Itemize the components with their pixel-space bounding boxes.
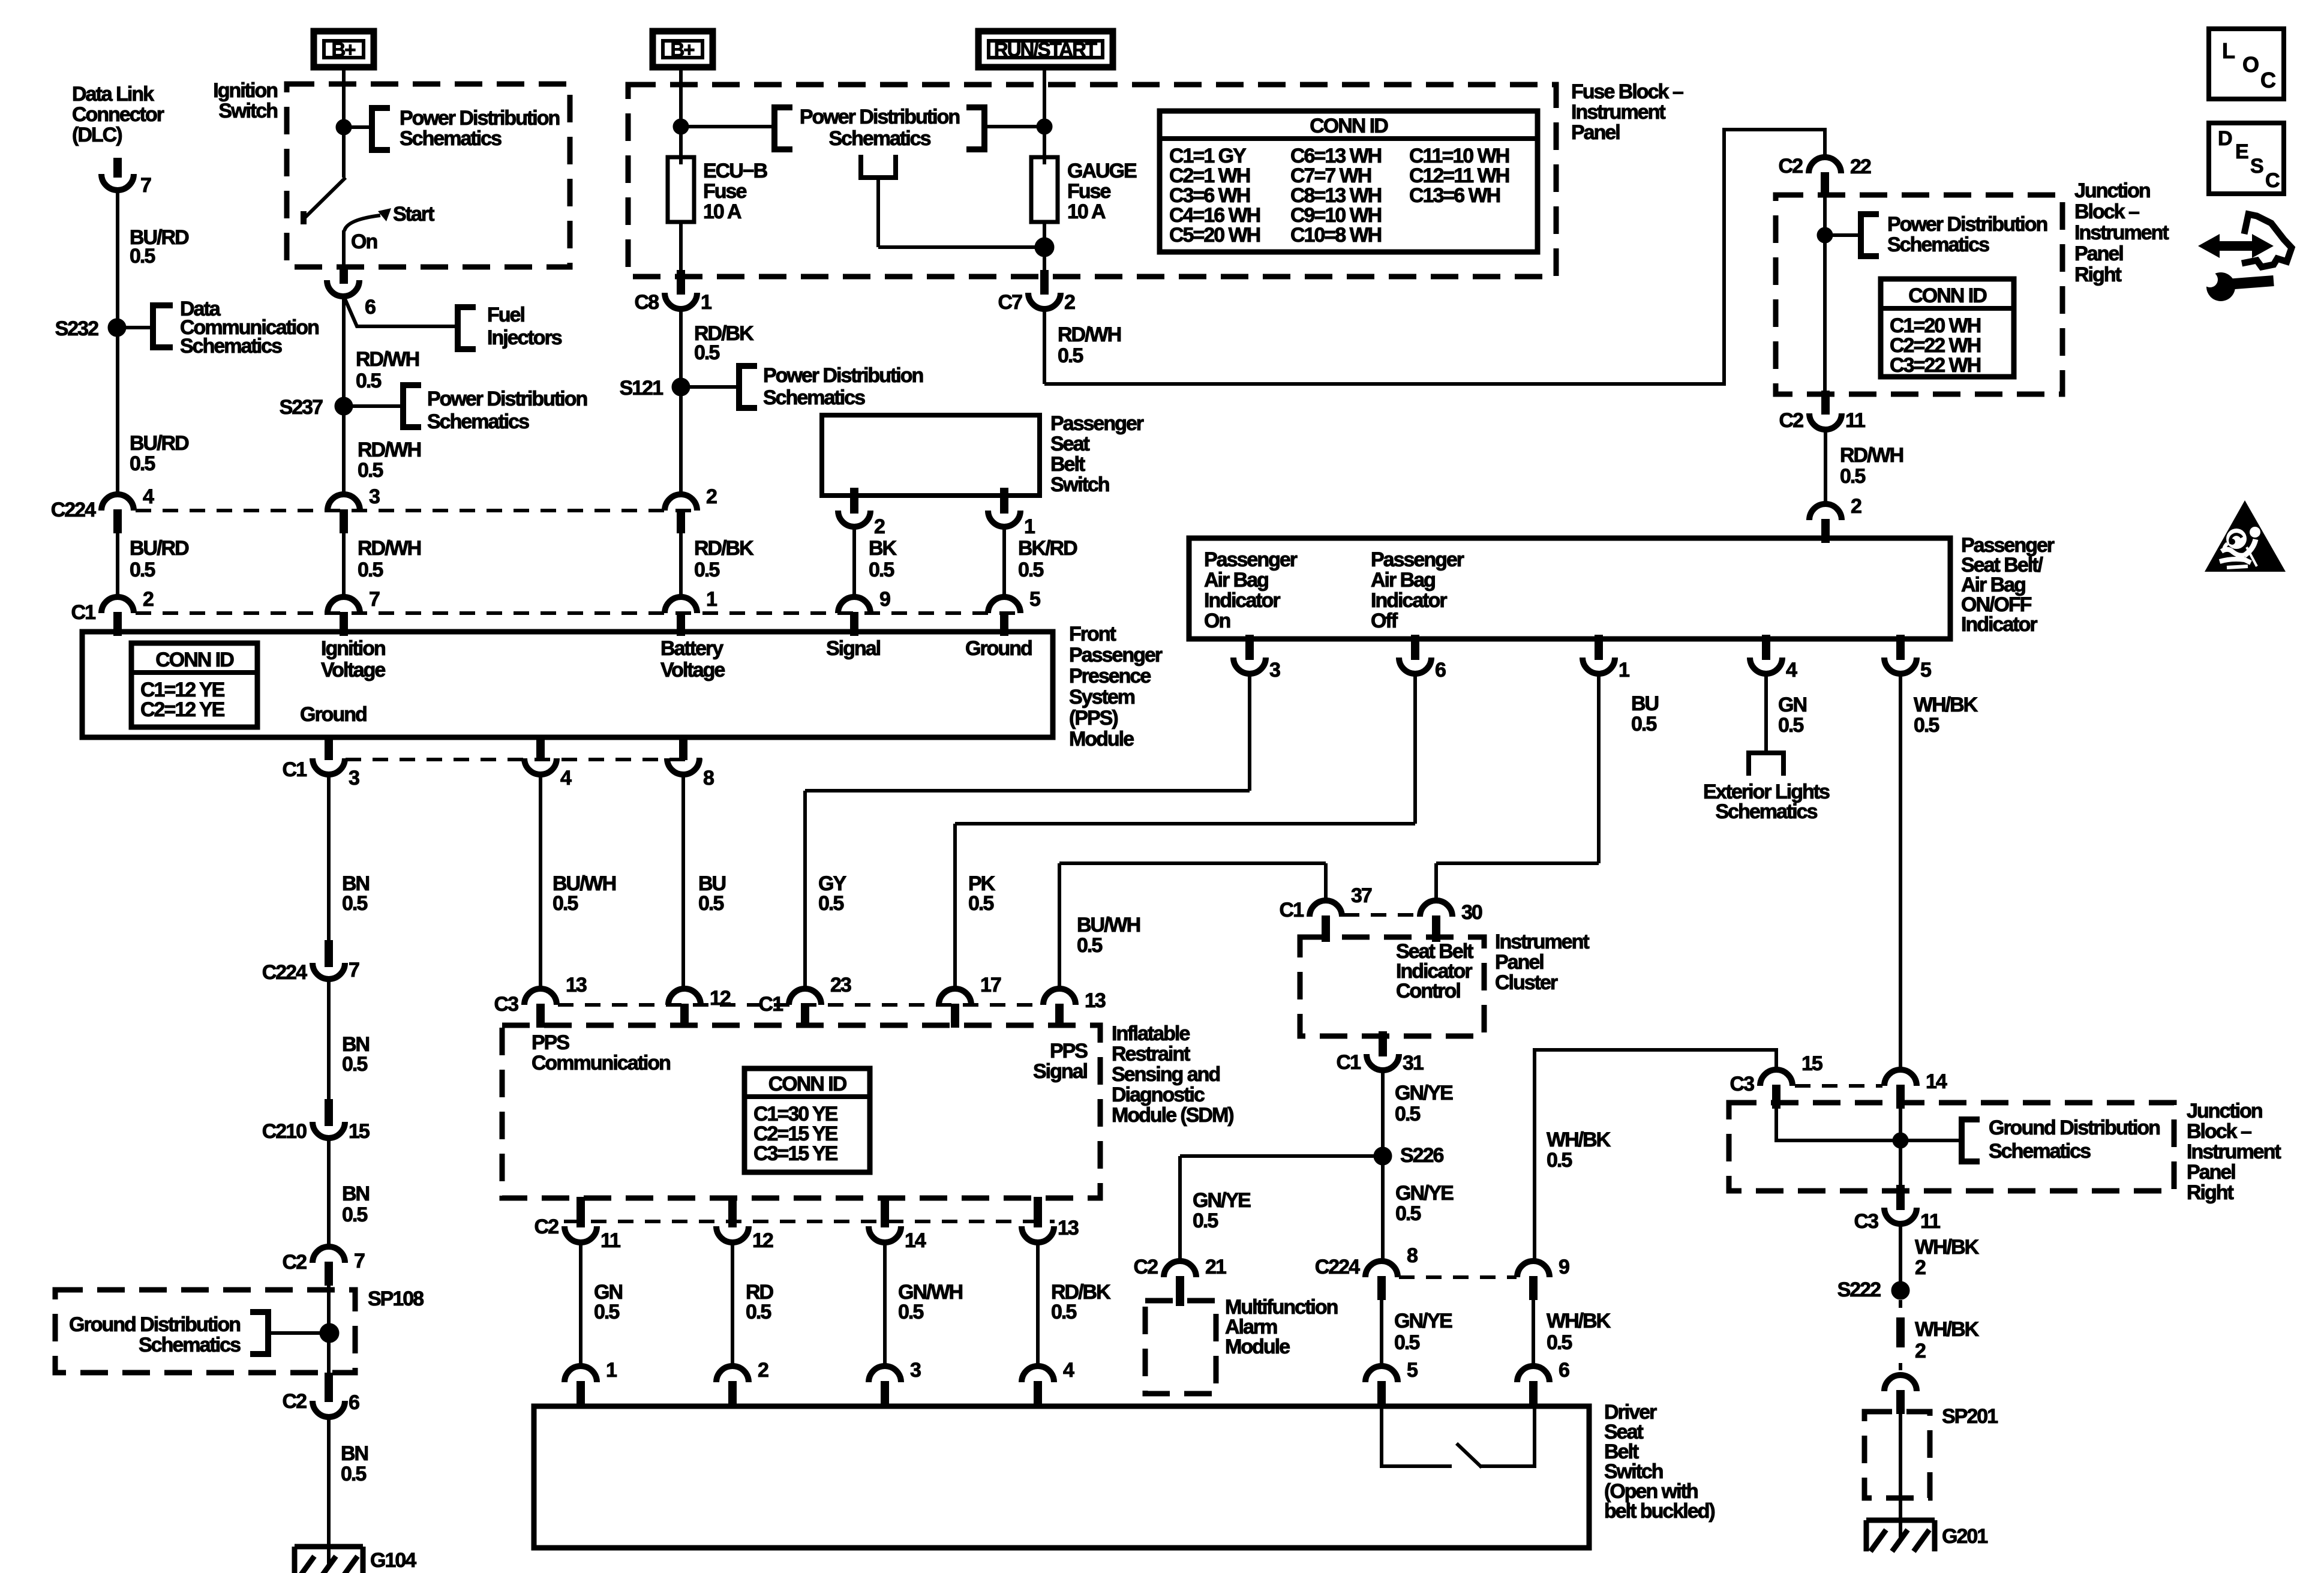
svg-text:9: 9: [1559, 1256, 1569, 1278]
svg-text:Power Distribution: Power Distribution: [400, 107, 559, 130]
svg-text:Schematics: Schematics: [763, 386, 865, 409]
svg-text:30: 30: [1461, 901, 1482, 924]
svg-text:10 A: 10 A: [1067, 200, 1106, 223]
svg-text:2: 2: [874, 515, 885, 538]
svg-text:Right: Right: [2187, 1181, 2234, 1204]
svg-text:C: C: [2260, 68, 2276, 92]
svg-text:PPS: PPS: [532, 1031, 569, 1054]
svg-text:C3: C3: [1854, 1210, 1879, 1233]
svg-text:Passenger: Passenger: [1069, 644, 1163, 667]
svg-text:Schematics: Schematics: [400, 127, 502, 150]
svg-text:Ignition: Ignition: [213, 79, 277, 102]
svg-text:WH/BK: WH/BK: [1547, 1310, 1611, 1332]
svg-text:C224: C224: [1315, 1256, 1360, 1278]
svg-text:Belt: Belt: [1050, 453, 1085, 476]
svg-text:0.5: 0.5: [1395, 1103, 1420, 1125]
svg-text:4: 4: [1786, 659, 1797, 682]
svg-text:Sensing and: Sensing and: [1112, 1063, 1220, 1086]
svg-text:Signal: Signal: [1033, 1060, 1088, 1083]
svg-text:BU: BU: [1631, 692, 1659, 715]
svg-text:GN: GN: [1778, 694, 1806, 716]
svg-text:0.5: 0.5: [130, 452, 155, 475]
svg-text:WH/BK: WH/BK: [1915, 1318, 1980, 1341]
svg-text:Indicator: Indicator: [1204, 589, 1280, 612]
svg-text:Instrument: Instrument: [2187, 1140, 2281, 1163]
svg-text:WH/BK: WH/BK: [1547, 1128, 1611, 1151]
svg-text:ECU−B: ECU−B: [703, 160, 768, 182]
svg-text:Fuel: Fuel: [487, 304, 524, 326]
svg-text:C3: C3: [1730, 1073, 1755, 1095]
svg-text:0.5: 0.5: [1051, 1301, 1076, 1323]
svg-text:Schematics: Schematics: [1989, 1140, 2091, 1163]
svg-text:1: 1: [606, 1359, 617, 1382]
svg-text:0.5: 0.5: [1395, 1202, 1421, 1225]
svg-text:CONN ID: CONN ID: [155, 649, 234, 671]
svg-text:11: 11: [1920, 1210, 1940, 1233]
svg-text:22: 22: [1850, 155, 1871, 178]
svg-text:C5=20 WH: C5=20 WH: [1169, 224, 1260, 247]
svg-text:12: 12: [752, 1229, 773, 1252]
svg-text:C8: C8: [635, 291, 659, 314]
svg-text:0.5: 0.5: [342, 892, 367, 915]
svg-text:1: 1: [701, 291, 711, 314]
svg-text:Schematics: Schematics: [1887, 233, 1989, 256]
svg-text:E: E: [2235, 140, 2248, 163]
svg-text:Diagnostic: Diagnostic: [1112, 1083, 1205, 1106]
svg-text:0.5: 0.5: [746, 1301, 771, 1323]
svg-text:C1: C1: [71, 601, 96, 624]
svg-text:0.5: 0.5: [869, 559, 894, 581]
svg-text:Block –: Block –: [2187, 1120, 2251, 1143]
svg-text:Passenger: Passenger: [1371, 548, 1464, 571]
svg-text:GN/YE: GN/YE: [1395, 1082, 1453, 1104]
svg-text:Instrument: Instrument: [1571, 101, 1665, 124]
svg-text:S232: S232: [55, 317, 98, 340]
svg-text:21: 21: [1205, 1256, 1226, 1278]
svg-text:0.5: 0.5: [1394, 1331, 1419, 1354]
svg-text:8: 8: [703, 767, 714, 789]
svg-text:0.5: 0.5: [341, 1463, 366, 1485]
svg-text:WH/BK: WH/BK: [1915, 1236, 1980, 1259]
svg-text:Panel: Panel: [1571, 121, 1620, 144]
svg-text:C3: C3: [494, 993, 519, 1016]
svg-text:Power Distribution: Power Distribution: [427, 388, 587, 410]
svg-text:Restraint: Restraint: [1112, 1043, 1190, 1065]
svg-text:BK/RD: BK/RD: [1018, 537, 1077, 560]
svg-text:C2: C2: [283, 1251, 307, 1274]
svg-text:17: 17: [980, 974, 1001, 996]
svg-text:3: 3: [1269, 659, 1280, 682]
svg-text:SP108: SP108: [368, 1287, 424, 1310]
svg-text:(DLC): (DLC): [72, 124, 122, 146]
svg-text:C10=8 WH: C10=8 WH: [1290, 224, 1382, 247]
svg-text:Ground Distribution: Ground Distribution: [69, 1313, 240, 1336]
svg-text:4: 4: [1063, 1359, 1074, 1382]
svg-text:3: 3: [369, 485, 380, 508]
svg-text:23: 23: [830, 974, 851, 996]
svg-text:BN: BN: [341, 1442, 368, 1465]
svg-text:PPS: PPS: [1050, 1040, 1088, 1062]
svg-text:WH/BK: WH/BK: [1914, 694, 1978, 716]
svg-text:Air Bag: Air Bag: [1371, 569, 1435, 592]
svg-text:Off: Off: [1371, 610, 1398, 632]
svg-text:Ground Distribution: Ground Distribution: [1989, 1116, 2160, 1139]
svg-text:0.5: 0.5: [1018, 559, 1043, 581]
svg-text:RUN/START: RUN/START: [994, 38, 1097, 61]
svg-text:5: 5: [1029, 588, 1040, 611]
svg-text:O: O: [2242, 52, 2259, 77]
svg-text:B+: B+: [331, 38, 355, 61]
svg-text:9: 9: [879, 588, 890, 611]
svg-text:8: 8: [1407, 1244, 1418, 1267]
svg-text:Connector: Connector: [72, 103, 164, 126]
svg-text:0.5: 0.5: [1914, 714, 1939, 737]
svg-text:System: System: [1069, 686, 1135, 709]
svg-text:C1: C1: [759, 993, 783, 1016]
svg-text:Seat: Seat: [1050, 433, 1089, 455]
svg-text:C2: C2: [1134, 1256, 1158, 1278]
svg-text:C13=6 WH: C13=6 WH: [1409, 184, 1500, 207]
svg-text:BK: BK: [869, 537, 897, 560]
svg-text:Voltage: Voltage: [660, 659, 725, 682]
svg-text:CONN ID: CONN ID: [1310, 115, 1388, 137]
svg-text:Battery: Battery: [660, 637, 723, 660]
svg-text:Front: Front: [1069, 623, 1116, 646]
svg-text:11: 11: [1845, 409, 1865, 432]
svg-text:0.5: 0.5: [968, 892, 993, 915]
svg-text:On: On: [351, 230, 377, 253]
svg-text:6: 6: [1559, 1359, 1569, 1382]
svg-text:0.5: 0.5: [342, 1203, 367, 1226]
svg-text:GN/YE: GN/YE: [1395, 1182, 1454, 1205]
svg-text:C3=15 YE: C3=15 YE: [753, 1142, 838, 1165]
svg-text:SP201: SP201: [1942, 1405, 1998, 1428]
svg-text:C2: C2: [1779, 409, 1804, 432]
svg-text:2: 2: [706, 485, 717, 508]
svg-text:2: 2: [143, 588, 154, 611]
svg-text:1: 1: [706, 588, 717, 611]
svg-text:C: C: [2265, 169, 2280, 192]
svg-text:Schematics: Schematics: [139, 1334, 241, 1356]
svg-text:0.5: 0.5: [698, 892, 723, 915]
svg-text:31: 31: [1403, 1052, 1424, 1074]
svg-text:0.5: 0.5: [130, 245, 155, 268]
svg-text:B+: B+: [670, 38, 694, 61]
svg-text:Schematics: Schematics: [180, 335, 282, 358]
svg-text:0.5: 0.5: [1547, 1331, 1572, 1354]
svg-text:Cluster: Cluster: [1495, 971, 1558, 994]
svg-text:C3=22 WH: C3=22 WH: [1890, 354, 1981, 377]
svg-text:C1: C1: [1280, 899, 1304, 921]
svg-text:L: L: [2222, 38, 2235, 63]
svg-text:4: 4: [143, 485, 154, 508]
svg-text:Ground: Ground: [965, 637, 1032, 660]
svg-text:2: 2: [1915, 1340, 1926, 1362]
svg-text:C2: C2: [1779, 155, 1803, 178]
svg-text:0.5: 0.5: [694, 559, 719, 581]
svg-text:RD/WH: RD/WH: [1058, 323, 1121, 346]
svg-text:Schematics: Schematics: [829, 127, 931, 150]
svg-text:0.5: 0.5: [358, 459, 383, 482]
svg-text:Inflatable: Inflatable: [1112, 1022, 1190, 1045]
svg-text:Fuse: Fuse: [1067, 180, 1110, 203]
svg-text:13: 13: [1058, 1217, 1079, 1239]
svg-text:Junction: Junction: [2074, 179, 2150, 202]
svg-text:C7: C7: [998, 291, 1023, 314]
svg-text:7: 7: [369, 588, 380, 611]
svg-text:37: 37: [1351, 884, 1372, 907]
svg-text:On: On: [1204, 610, 1230, 632]
svg-text:GAUGE: GAUGE: [1067, 160, 1137, 182]
svg-text:0.5: 0.5: [898, 1301, 923, 1323]
svg-text:2: 2: [1064, 291, 1075, 314]
svg-text:0.5: 0.5: [1077, 934, 1102, 957]
svg-text:1: 1: [1024, 515, 1035, 538]
svg-text:0.5: 0.5: [342, 1053, 367, 1076]
svg-text:0.5: 0.5: [553, 892, 578, 915]
svg-text:0.5: 0.5: [818, 892, 843, 915]
svg-text:Switch: Switch: [1050, 473, 1109, 496]
svg-text:S121: S121: [620, 377, 663, 400]
svg-text:S: S: [2250, 155, 2263, 178]
svg-text:7: 7: [140, 174, 151, 197]
svg-text:C224: C224: [262, 961, 307, 984]
svg-text:Passenger: Passenger: [1204, 548, 1298, 571]
svg-text:C1: C1: [1337, 1051, 1361, 1074]
svg-text:G104: G104: [370, 1549, 416, 1572]
svg-text:7: 7: [349, 959, 359, 981]
svg-text:0.5: 0.5: [1840, 465, 1865, 488]
svg-text:7: 7: [354, 1250, 365, 1272]
svg-text:5: 5: [1920, 659, 1931, 682]
svg-text:0.5: 0.5: [594, 1301, 619, 1323]
svg-text:Fuse: Fuse: [703, 180, 746, 203]
svg-text:15: 15: [1801, 1052, 1822, 1075]
svg-text:S222: S222: [1837, 1278, 1881, 1301]
svg-text:BN: BN: [342, 1182, 370, 1205]
svg-text:1: 1: [1619, 659, 1629, 682]
svg-text:RD/WH: RD/WH: [356, 348, 419, 371]
svg-text:CONN ID: CONN ID: [1908, 284, 1987, 307]
svg-text:(PPS): (PPS): [1069, 707, 1118, 730]
svg-text:BU/RD: BU/RD: [130, 537, 189, 560]
svg-text:Right: Right: [2074, 263, 2122, 286]
svg-text:Fuse Block –: Fuse Block –: [1571, 80, 1683, 103]
svg-text:0.5: 0.5: [1058, 344, 1083, 367]
svg-text:5: 5: [1407, 1359, 1418, 1382]
svg-text:D: D: [2218, 127, 2232, 150]
svg-text:S226: S226: [1400, 1144, 1443, 1167]
svg-text:G201: G201: [1942, 1525, 1987, 1548]
svg-text:2: 2: [1915, 1256, 1926, 1279]
svg-text:0.5: 0.5: [1547, 1149, 1572, 1172]
svg-text:Switch: Switch: [218, 100, 277, 122]
svg-text:0.5: 0.5: [1193, 1209, 1218, 1232]
svg-text:RD/WH: RD/WH: [1840, 444, 1903, 467]
svg-text:GN/YE: GN/YE: [1394, 1310, 1452, 1332]
svg-text:6: 6: [1435, 659, 1446, 682]
svg-text:Control: Control: [1396, 980, 1460, 1002]
svg-text:Panel: Panel: [1495, 951, 1544, 974]
svg-text:RD/BK: RD/BK: [694, 537, 754, 560]
svg-text:Signal: Signal: [826, 637, 881, 660]
svg-text:13: 13: [566, 974, 587, 996]
svg-text:Instrument: Instrument: [1495, 930, 1589, 953]
svg-text:BU/WH: BU/WH: [1077, 914, 1140, 936]
svg-text:C2: C2: [283, 1390, 307, 1413]
svg-text:0.5: 0.5: [1631, 713, 1656, 736]
svg-text:14: 14: [905, 1229, 926, 1252]
svg-text:0.5: 0.5: [1778, 714, 1803, 737]
svg-text:0.5: 0.5: [130, 559, 155, 581]
svg-text:C2: C2: [535, 1215, 559, 1238]
svg-text:14: 14: [1926, 1070, 1947, 1093]
svg-text:Start: Start: [393, 203, 434, 226]
svg-text:belt buckled): belt buckled): [1604, 1500, 1715, 1523]
svg-text:RD/WH: RD/WH: [358, 537, 421, 560]
svg-text:Data Link: Data Link: [72, 83, 154, 106]
svg-text:RD/WH: RD/WH: [358, 439, 421, 461]
svg-text:BU/RD: BU/RD: [130, 432, 189, 455]
svg-text:C210: C210: [262, 1120, 307, 1143]
svg-text:Passenger: Passenger: [1050, 412, 1144, 435]
svg-text:C224: C224: [51, 499, 96, 521]
svg-text:Module (SDM): Module (SDM): [1112, 1104, 1233, 1127]
svg-text:CONN ID: CONN ID: [768, 1073, 847, 1095]
svg-text:C2=12 YE: C2=12 YE: [140, 698, 225, 721]
svg-text:Ground: Ground: [300, 703, 367, 726]
svg-text:Communication: Communication: [532, 1052, 670, 1074]
svg-text:13: 13: [1085, 989, 1106, 1012]
svg-text:0.5: 0.5: [356, 370, 381, 392]
svg-text:3: 3: [349, 767, 359, 789]
svg-text:3: 3: [910, 1359, 921, 1382]
svg-text:Panel: Panel: [2074, 242, 2123, 265]
svg-text:0.5: 0.5: [694, 341, 719, 364]
svg-text:2: 2: [758, 1359, 768, 1382]
svg-text:Power Distribution: Power Distribution: [763, 364, 923, 387]
svg-text:S237: S237: [280, 396, 323, 419]
svg-text:Schematics: Schematics: [427, 410, 529, 433]
svg-text:11: 11: [600, 1229, 620, 1252]
svg-text:10 A: 10 A: [703, 200, 741, 223]
svg-text:Injectors: Injectors: [487, 326, 562, 349]
svg-text:Ignition: Ignition: [321, 637, 385, 660]
svg-text:Presence: Presence: [1069, 665, 1151, 688]
svg-text:GN/YE: GN/YE: [1193, 1189, 1251, 1212]
svg-text:Block –: Block –: [2074, 200, 2139, 223]
svg-text:C1: C1: [283, 758, 307, 781]
svg-text:Voltage: Voltage: [321, 659, 385, 682]
svg-text:Panel: Panel: [2187, 1161, 2235, 1184]
svg-text:Junction: Junction: [2187, 1100, 2262, 1122]
svg-text:Schematics: Schematics: [1716, 800, 1818, 823]
svg-text:15: 15: [349, 1120, 370, 1143]
svg-text:6: 6: [349, 1391, 359, 1414]
svg-text:12: 12: [710, 987, 731, 1010]
svg-text:Air Bag: Air Bag: [1204, 569, 1268, 592]
svg-text:Instrument: Instrument: [2074, 221, 2169, 244]
svg-text:2: 2: [1851, 495, 1861, 518]
svg-text:0.5: 0.5: [358, 559, 383, 581]
svg-text:Power Distribution: Power Distribution: [800, 106, 959, 128]
svg-text:Power Distribution: Power Distribution: [1887, 213, 2047, 236]
svg-text:Module: Module: [1225, 1335, 1290, 1358]
svg-text:Indicator: Indicator: [1371, 589, 1447, 612]
svg-text:Module: Module: [1069, 728, 1134, 751]
svg-text:6: 6: [365, 296, 376, 319]
svg-text:4: 4: [560, 767, 572, 789]
svg-text:Indicator: Indicator: [1961, 613, 2037, 636]
